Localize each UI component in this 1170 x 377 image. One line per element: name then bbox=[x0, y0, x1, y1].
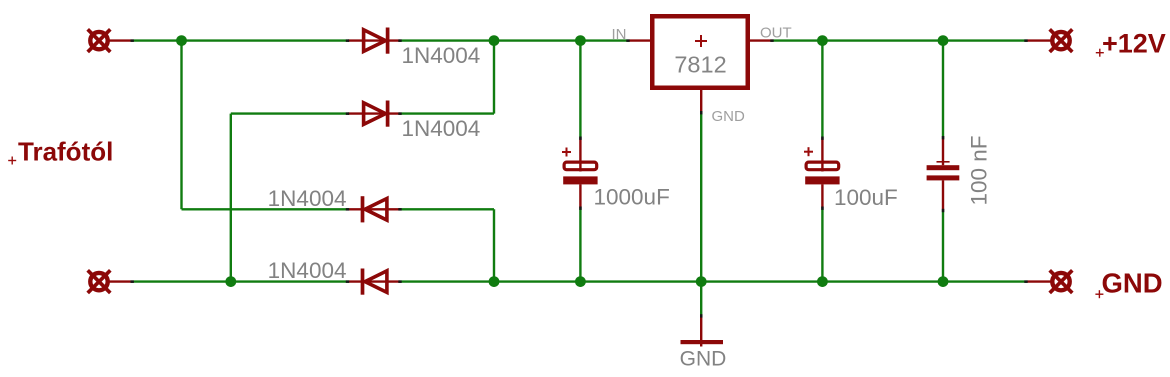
diode D3 1N4004 (row3, pointing left) bbox=[349, 196, 400, 222]
svg-text:1N4004: 1N4004 bbox=[402, 43, 481, 68]
svg-text:100uF: 100uF bbox=[834, 185, 898, 210]
svg-text:Trafótól: Trafótól bbox=[18, 136, 113, 166]
value label D3 bbox=[268, 186, 347, 211]
junction top rail at C1 bbox=[575, 35, 586, 46]
junction top rail at AC1 split bbox=[176, 35, 187, 46]
ground label bbox=[680, 348, 727, 371]
wire top rail AC1 segment bbox=[133, 39, 349, 41]
svg-text:1N4004: 1N4004 bbox=[268, 186, 347, 211]
svg-text:+12V: +12V bbox=[1102, 29, 1166, 59]
junction bottom rail at AC2 split bbox=[225, 276, 236, 287]
node label +12V with origin cross bbox=[1096, 29, 1166, 59]
capacitor C1 1000uF (polarized) bbox=[562, 138, 598, 208]
wire D2 cathode to top rail bbox=[400, 41, 495, 114]
wire top rail unregulated + segment bbox=[400, 39, 630, 41]
value label C2 bbox=[834, 185, 898, 210]
junction bottom rail at C1 bbox=[575, 276, 586, 287]
junction bottom rail at D3 anode bbox=[489, 276, 500, 287]
wire bottom rail AC2 segment bbox=[133, 280, 349, 282]
junction top rail at C2 bbox=[817, 35, 828, 46]
pad terminal top-left (transformer input 1) bbox=[88, 29, 133, 52]
wire AC1 vertical to row3 bbox=[182, 41, 350, 210]
wire bottom rail GND segment bbox=[400, 280, 1028, 282]
pin label OUT bbox=[760, 25, 792, 42]
wire 7812 GND pin to bottom rail and ground symbol bbox=[700, 114, 702, 317]
op-amp U1 regulator 7812 box bbox=[629, 16, 773, 113]
pad terminal bottom-left (transformer input 2) bbox=[88, 270, 133, 293]
node label GND with origin cross bbox=[1095, 268, 1162, 299]
value label C3 (rotated) bbox=[967, 135, 992, 205]
value label C1 bbox=[594, 185, 670, 210]
value label D4 bbox=[268, 258, 347, 283]
svg-text:GND: GND bbox=[1102, 268, 1163, 299]
svg-text:1N4004: 1N4004 bbox=[268, 258, 347, 283]
junction bottom rail at 7812 GND bbox=[696, 276, 707, 287]
wire row2 horizontal AC2 to diode D2 bbox=[231, 112, 349, 114]
pad terminal top-right (+12V output) bbox=[1027, 29, 1072, 52]
value label D2 bbox=[402, 116, 481, 141]
junction bottom rail at C2 bbox=[817, 276, 828, 287]
svg-text:1000uF: 1000uF bbox=[594, 185, 670, 210]
wire C3 bottom connection bbox=[942, 210, 944, 281]
pad terminal bottom-right (GND output) bbox=[1027, 270, 1072, 293]
svg-text:100 nF: 100 nF bbox=[967, 135, 992, 205]
wire C1 bottom connection bbox=[579, 208, 581, 281]
diode D1 1N4004 (top, pointing right) bbox=[348, 28, 400, 54]
svg-text:GND: GND bbox=[712, 108, 746, 125]
value label D1 bbox=[402, 43, 481, 68]
pin contact dots (dark transition points) bbox=[131, 39, 1028, 317]
capacitor C2 100uF (polarized) bbox=[804, 138, 840, 208]
svg-text:7812: 7812 bbox=[674, 52, 726, 78]
svg-text:GND: GND bbox=[680, 348, 727, 371]
junction top rail at D2 cathode bbox=[489, 35, 500, 46]
value label U1 bbox=[674, 52, 726, 78]
svg-text:IN: IN bbox=[612, 26, 627, 43]
svg-text:1N4004: 1N4004 bbox=[402, 116, 481, 141]
wire D3 anode to bottom rail bbox=[400, 209, 495, 281]
wire AC2 vertical junction to row2 bbox=[230, 114, 232, 282]
wire C3 top connection bbox=[942, 41, 944, 138]
wire C2 bottom connection bbox=[821, 208, 823, 281]
diode D4 1N4004 (bottom rail, pointing left) bbox=[349, 269, 400, 295]
junction top rail at C3 bbox=[938, 35, 949, 46]
pin label GND bbox=[712, 108, 746, 125]
junction bottom rail at C3 bbox=[938, 276, 949, 287]
ground symbol bbox=[681, 317, 724, 347]
wire 7812 output to +12V pad bbox=[773, 39, 1027, 41]
pin label IN bbox=[612, 26, 627, 43]
wire C2 top connection bbox=[821, 41, 823, 138]
diode D2 1N4004 (row2, pointing right) bbox=[348, 101, 400, 127]
wire C1 top connection bbox=[579, 41, 581, 138]
capacitor C3 100nF (non-polarized) bbox=[927, 138, 960, 211]
node label Trafótól with origin cross bbox=[8, 136, 113, 166]
svg-text:OUT: OUT bbox=[760, 25, 792, 42]
